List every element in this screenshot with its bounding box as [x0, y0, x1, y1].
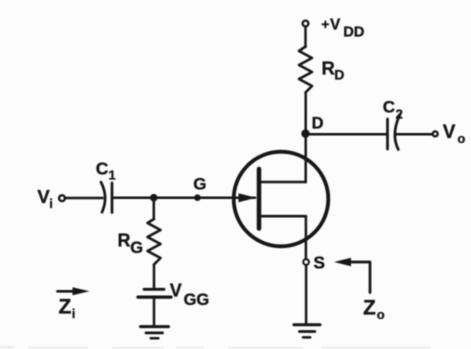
capacitor C2 left plate	[386, 119, 389, 149]
transistor Q1 JFET body circle	[234, 152, 329, 247]
svg-text:i: i	[49, 196, 53, 211]
svg-text:V: V	[443, 122, 456, 143]
transistor Q1 gate bar	[257, 169, 262, 229]
Zi arrow	[58, 287, 90, 295]
battery VGG top plate	[144, 288, 164, 291]
resistor RG	[148, 219, 161, 265]
svg-text:1: 1	[109, 168, 116, 183]
scan artifact bottom edge	[0, 346, 430, 349]
svg-text:V: V	[330, 17, 341, 34]
svg-text:G: G	[193, 174, 206, 193]
wire VDD terminal to RD top	[304, 27, 307, 47]
wire C1 to gate	[112, 196, 255, 199]
ground left line2	[146, 331, 163, 334]
svg-text:o: o	[377, 307, 385, 322]
transistor Q1 drain lead	[261, 181, 306, 184]
wire source lead down to S terminal	[305, 216, 308, 258]
wire Vi terminal to C1	[66, 197, 103, 200]
svg-text:R: R	[118, 231, 131, 251]
terminal S	[303, 259, 308, 264]
node D junction dot	[301, 129, 309, 137]
svg-text:Z: Z	[363, 297, 376, 320]
Zo arrow	[334, 258, 370, 293]
capacitor C1 right plate	[111, 183, 114, 213]
terminal Vo	[433, 131, 438, 136]
svg-text:V: V	[170, 281, 182, 301]
svg-text:o: o	[457, 131, 465, 146]
wire node to RG top	[153, 198, 156, 219]
transistor Q1 source lead	[261, 215, 306, 218]
ground right line1	[294, 323, 320, 326]
svg-text:DD: DD	[343, 25, 364, 41]
ground left line1	[141, 325, 169, 328]
capacitor C1 left curved plate	[101, 182, 105, 212]
battery VGG bottom plate	[138, 295, 171, 298]
svg-text:Z: Z	[59, 296, 72, 319]
svg-text:C: C	[96, 158, 109, 178]
wire C2 to Vo terminal	[396, 133, 432, 136]
svg-text:S: S	[313, 252, 325, 272]
svg-text:D: D	[334, 67, 344, 83]
node G dot	[194, 194, 201, 201]
node junction RG dot	[150, 194, 158, 202]
svg-text:G: G	[130, 239, 143, 257]
terminal +VDD	[303, 21, 309, 27]
capacitor C2 right curved plate	[395, 114, 400, 150]
ground right line3	[303, 336, 310, 339]
svg-text:D: D	[312, 115, 324, 133]
wire RG bottom to battery	[153, 265, 156, 288]
svg-text:+: +	[321, 16, 329, 32]
svg-text:2: 2	[396, 107, 403, 122]
terminal Vi	[59, 195, 65, 201]
wire battery to ground	[153, 299, 156, 326]
wire node D to C2	[308, 133, 387, 136]
resistor RD	[299, 47, 312, 93]
svg-text:C: C	[383, 98, 395, 117]
wire S terminal to ground	[305, 265, 308, 324]
svg-text:GG: GG	[184, 291, 210, 309]
gate arrowhead	[239, 193, 257, 202]
wire RD bottom through node D to drain	[304, 93, 307, 183]
ground left line3	[151, 337, 159, 340]
ground right line2	[299, 330, 314, 333]
svg-text:i: i	[72, 306, 76, 321]
svg-text:R: R	[322, 58, 335, 79]
